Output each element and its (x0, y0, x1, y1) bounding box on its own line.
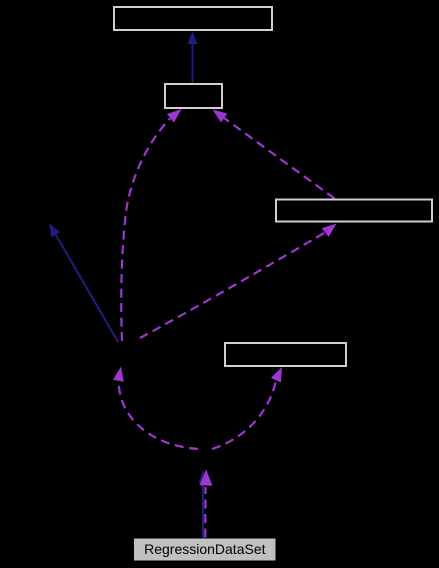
svg-text:RegressionDataSet: RegressionDataSet (144, 541, 266, 557)
